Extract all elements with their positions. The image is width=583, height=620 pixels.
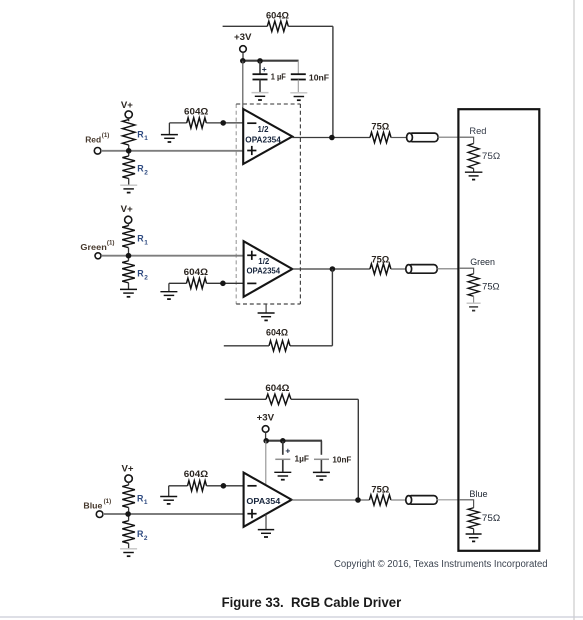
- resistor 604&#937; green input: [187, 278, 207, 288]
- wire blue output to cable: [391, 499, 406, 501]
- svg-text:1µF: 1µF: [295, 453, 310, 463]
- wire 1uF bottom stem: [259, 80, 261, 93]
- resistor 75&#937; red termination: [468, 144, 479, 169]
- svg-text:75Ω: 75Ω: [482, 151, 500, 161]
- ground R2 red: [120, 184, 137, 186]
- resistor 604&#937; blue feedback: [266, 394, 291, 404]
- page bottom rule line: [0, 616, 583, 618]
- resistor 604&#937; red input: [187, 118, 207, 128]
- svg-text:1/2: 1/2: [258, 125, 270, 134]
- junction supply rail blue 1uF: [280, 438, 286, 444]
- plus sign U1A: [247, 150, 256, 152]
- ground blue input resistor: [168, 486, 170, 496]
- svg-text:1/2: 1/2: [258, 257, 270, 266]
- resistor 604&#937; green feedback: [269, 341, 290, 351]
- resistor 75&#937; blue termination: [468, 508, 479, 529]
- wire red output: [292, 137, 370, 139]
- svg-text:604Ω: 604Ω: [184, 106, 209, 117]
- wire green output: [292, 268, 370, 270]
- wire feedback right vertical to red output: [332, 26, 334, 137]
- minus sign U1B: [247, 282, 256, 284]
- wire R1 to node green: [128, 248, 130, 261]
- svg-text:+3V: +3V: [234, 32, 252, 43]
- svg-text:Green: Green: [80, 242, 106, 252]
- wire 604 to inverting input green: [207, 282, 244, 284]
- svg-text:OPA2354: OPA2354: [245, 135, 281, 145]
- wire V+ to R1 blue: [128, 482, 130, 485]
- svg-text:75Ω: 75Ω: [371, 121, 389, 132]
- svg-text:75Ω: 75Ω: [482, 282, 500, 292]
- wire 1uF blue bottom stem: [282, 460, 284, 472]
- page edge line: [573, 0, 575, 620]
- terminal V+ green: [125, 216, 132, 223]
- wire 604 to inverting input red: [206, 122, 243, 124]
- ground C3: [274, 471, 291, 473]
- svg-text:+3V: +3V: [257, 413, 275, 424]
- wire gnd to 604 blue: [169, 485, 188, 487]
- wire green feedback vertical: [331, 269, 333, 346]
- junction red R1-R2 node: [126, 148, 132, 154]
- junction red output feedback: [329, 135, 335, 141]
- dashed box OPA2354 package: [235, 104, 237, 304]
- wire red output to cable: [391, 137, 407, 139]
- resistor R2 blue: [122, 521, 135, 544]
- wire R2 to ground red: [128, 179, 130, 185]
- wire red termination to ground: [473, 169, 475, 172]
- svg-text:(1): (1): [102, 132, 110, 139]
- svg-text:2: 2: [144, 274, 148, 281]
- svg-text:2: 2: [144, 169, 148, 176]
- wire blue output: [292, 499, 370, 501]
- junction blue output feedback: [355, 497, 361, 503]
- op-amp U1B half OPA2354: [244, 241, 293, 297]
- ground green termination: [467, 302, 481, 304]
- wire gnd to 604 red: [169, 122, 186, 124]
- minus sign U1A: [247, 122, 256, 124]
- port Red input: [94, 148, 101, 155]
- svg-text:Figure 33. RGB Cable Driver: Figure 33. RGB Cable Driver: [222, 595, 402, 610]
- resistor R1 blue: [122, 485, 135, 508]
- wire blue feedback right segment: [291, 398, 358, 400]
- wire R2 to ground blue: [128, 543, 130, 548]
- svg-text:1 µF: 1 µF: [271, 72, 286, 82]
- wire 604 to inverting input blue: [207, 485, 244, 487]
- plus sign U1B: [247, 254, 256, 256]
- ground R2 green: [120, 288, 137, 290]
- wire blue termination: [459, 500, 474, 508]
- svg-text:604Ω: 604Ω: [266, 10, 289, 21]
- plus sign U2: [247, 513, 256, 515]
- wire 10nF bottom stem: [297, 80, 299, 93]
- svg-text:604Ω: 604Ω: [184, 469, 209, 480]
- svg-text:V+: V+: [121, 100, 133, 111]
- svg-text:1: 1: [144, 239, 148, 246]
- junction supply rail left: [240, 58, 246, 64]
- junction supply rail blue left: [263, 438, 269, 444]
- resistor 75&#937; red output: [370, 132, 391, 142]
- wire supply rail blue: [265, 440, 322, 442]
- cable red: [409, 133, 438, 142]
- wire green termination: [459, 268, 474, 274]
- svg-text:604Ω: 604Ω: [184, 267, 209, 278]
- wire supply down to op-amp U2: [265, 441, 267, 485]
- junction blue inverting node: [221, 483, 227, 489]
- svg-text:(1): (1): [107, 239, 115, 246]
- wire R1 to node red: [128, 145, 130, 156]
- resistor 604&#937; red feedback: [267, 21, 288, 31]
- svg-text:2: 2: [144, 535, 148, 542]
- ground red input resistor: [168, 123, 170, 134]
- wire V+ to R1 red: [128, 118, 130, 121]
- ground green input resistor: [168, 283, 170, 291]
- svg-text:Copyright © 2016, Texas Instru: Copyright © 2016, Texas Instruments Inco…: [334, 559, 548, 570]
- ground blue termination: [466, 533, 482, 535]
- wire blue feedback left segment: [225, 398, 266, 400]
- wire blue feedback vertical: [357, 399, 359, 500]
- svg-text:Green: Green: [470, 257, 495, 267]
- cable blue: [408, 496, 437, 505]
- svg-text:Blue: Blue: [469, 489, 487, 499]
- resistor 75&#937; blue output: [369, 495, 391, 505]
- wire +3V stem blue: [265, 432, 267, 440]
- wire blue termination to ground: [473, 529, 475, 534]
- wire cable to box green: [436, 268, 459, 270]
- svg-text:10nF: 10nF: [332, 454, 351, 464]
- ground R2 blue: [120, 548, 137, 550]
- minus sign U2: [247, 485, 256, 487]
- svg-text:1: 1: [144, 135, 148, 142]
- ground red termination: [465, 171, 483, 173]
- wire supply rail red: [242, 60, 299, 62]
- wire +3V stem red: [242, 52, 244, 60]
- svg-text:+: +: [285, 445, 290, 455]
- wire gnd to 604 green: [169, 282, 187, 284]
- ground C2: [290, 92, 307, 94]
- svg-text:(1): (1): [104, 498, 112, 505]
- wire V+ to R1 green: [128, 223, 130, 225]
- svg-text:10nF: 10nF: [309, 73, 329, 83]
- wire 1uF blue top stem: [282, 441, 284, 455]
- svg-text:75Ω: 75Ω: [371, 484, 389, 495]
- junction blue R1-R2 node: [125, 511, 131, 517]
- resistor R1 green: [122, 226, 135, 248]
- resistor R2 green: [122, 261, 135, 283]
- junction green output feedback: [330, 266, 336, 272]
- capacitor C4 10nF blue: [314, 458, 329, 460]
- svg-text:604Ω: 604Ω: [265, 383, 289, 394]
- wire feedback top-left segment: [223, 25, 268, 27]
- capacitor C2 10nF: [291, 73, 306, 75]
- cable green: [408, 265, 437, 274]
- resistor 75&#937; green output: [370, 264, 391, 274]
- wire cable to box red: [437, 136, 459, 138]
- wire green feedback bottom left segment: [224, 345, 269, 347]
- svg-text:Red: Red: [469, 126, 486, 136]
- ground C1: [252, 92, 269, 94]
- terminal +3V red: [240, 46, 247, 53]
- svg-text:Blue: Blue: [83, 501, 102, 511]
- terminal +3V blue: [262, 426, 269, 433]
- svg-text:75Ω: 75Ω: [482, 513, 500, 523]
- wire green output to cable: [391, 268, 406, 270]
- svg-text:OPA2354: OPA2354: [247, 266, 281, 276]
- svg-text:Red: Red: [85, 134, 101, 144]
- wire supply down to op-amp U1A: [242, 61, 244, 108]
- terminal V+ blue: [125, 475, 132, 482]
- wire R1 to node blue: [128, 508, 130, 521]
- resistor R2 red: [122, 156, 135, 179]
- port Green input: [95, 253, 101, 259]
- wire green termination to ground: [473, 296, 475, 303]
- ground OPA2354 package: [265, 304, 267, 313]
- op-amp U2 OPA354: [244, 473, 292, 527]
- wire cable to box blue: [436, 499, 459, 501]
- resistor R1 red: [122, 120, 135, 146]
- svg-text:604Ω: 604Ω: [266, 328, 288, 339]
- svg-text:1: 1: [144, 499, 148, 506]
- junction red inverting node: [220, 120, 226, 126]
- monitor box: [458, 109, 539, 551]
- wire 10nF blue top stem: [320, 441, 322, 455]
- port Blue input: [96, 511, 103, 518]
- wire blue main input: [103, 513, 244, 515]
- wire red termination: [459, 137, 474, 143]
- wire 10nF top stem: [297, 61, 299, 74]
- ground U2: [265, 514, 267, 529]
- wire 1uF top stem: [259, 61, 261, 74]
- wire green feedback bottom right segment: [290, 345, 332, 347]
- svg-text:V+: V+: [121, 204, 133, 215]
- op-amp U1A half OPA2354: [243, 109, 292, 164]
- junction green R1-R2 node: [126, 253, 132, 259]
- ground C4: [313, 471, 330, 473]
- svg-text:OPA354: OPA354: [246, 496, 280, 506]
- capacitor C3 1uF blue: [275, 458, 290, 460]
- terminal V+ red: [125, 111, 132, 118]
- wire green main input: [101, 255, 243, 257]
- junction green inverting node: [220, 281, 226, 287]
- junction supply rail 1uF: [257, 58, 263, 64]
- resistor 604&#937; blue input: [188, 481, 207, 491]
- wire 10nF blue bottom stem: [320, 460, 322, 472]
- svg-text:75Ω: 75Ω: [371, 255, 389, 266]
- resistor 75&#937; green termination: [468, 274, 479, 297]
- svg-text:V+: V+: [122, 464, 134, 475]
- capacitor C1 1uF: [253, 73, 268, 75]
- wire feedback top-right segment: [288, 25, 333, 27]
- wire red main input: [101, 150, 243, 152]
- wire R2 to ground green: [128, 283, 130, 289]
- svg-text:+: +: [262, 64, 267, 74]
